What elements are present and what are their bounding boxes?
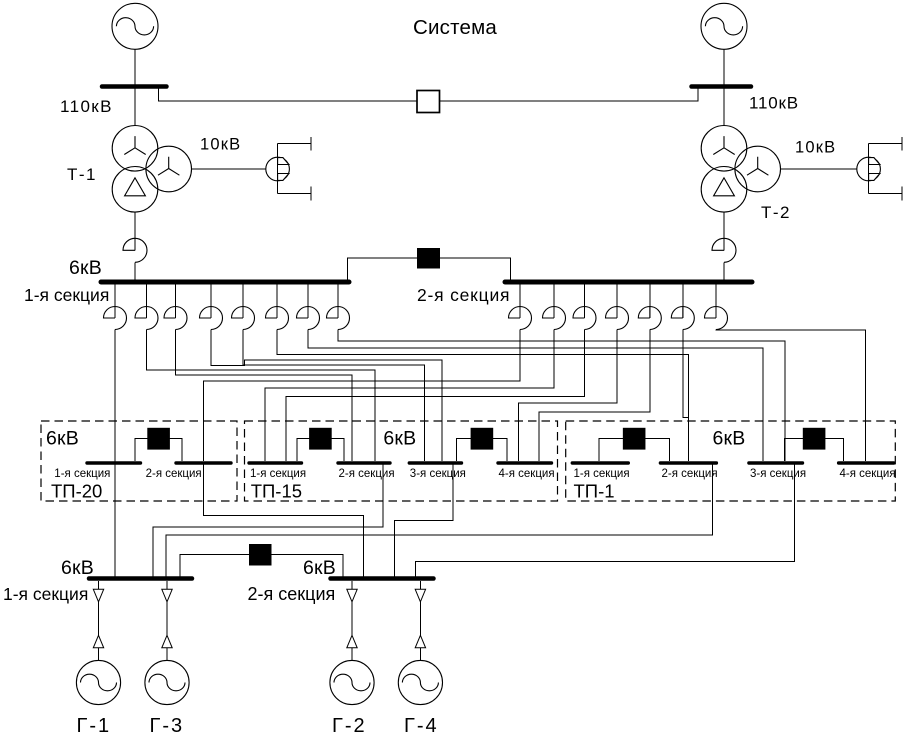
wire Г-4 middle lead — [419, 602, 421, 636]
wire feeder L7 drop — [307, 284, 309, 318]
substation box TP-1 — [566, 421, 896, 501]
switch closed tie TP-15 — [309, 428, 332, 450]
svg-text:Т-2: Т-2 — [761, 203, 791, 222]
substation box TP-15 — [245, 421, 558, 501]
busbar TP-20 1-я секция — [87, 461, 141, 464]
wire feeder L3 drop — [175, 284, 177, 318]
wire Г-1 lower lead — [98, 648, 100, 661]
wire TP-20 sec2 to lower right bus — [204, 465, 364, 579]
wire T-1 10kV lead — [192, 168, 266, 170]
svg-text:10кВ: 10кВ — [200, 136, 241, 154]
wire lower bus tie — [180, 555, 343, 577]
switch closed tie TP-15 — [471, 428, 494, 450]
wire Г-4 lower lead — [419, 648, 421, 661]
wire reactor-left top terminal — [278, 137, 311, 151]
cable termination Г-1 lower — [93, 635, 103, 648]
busbar 110kV right — [692, 84, 752, 89]
svg-text:Г-4: Г-4 — [404, 715, 439, 735]
svg-text:110кВ: 110кВ — [60, 97, 113, 116]
AC source system right — [701, 3, 747, 49]
cable termination Г-2 lower — [347, 635, 357, 648]
svg-text:10кВ: 10кВ — [795, 139, 836, 157]
wire tie TP-1 — [599, 439, 670, 462]
wire T-2 LV lead upper — [723, 212, 725, 250]
wire T-1 LV lead lower — [134, 262, 136, 280]
wire Г-2 upper lead — [351, 581, 353, 589]
wire reactor-right bottom terminal — [869, 187, 902, 201]
svg-text:1-я секция: 1-я секция — [54, 468, 110, 480]
cable termination Г-1 upper — [93, 589, 103, 602]
wire feeder L8 route — [338, 330, 785, 462]
wire feeder R1 route — [204, 330, 521, 462]
svg-text:1-я секция: 1-я секция — [250, 468, 306, 480]
generator Г-3 — [145, 660, 189, 704]
breaker feeder L4 — [200, 307, 223, 330]
busbar 6kV section 2 — [505, 280, 752, 285]
svg-text:ТП-1: ТП-1 — [574, 481, 615, 502]
wire feeder R2 route — [265, 330, 554, 462]
split reactor right — [857, 157, 881, 181]
transformer T-2 (three-winding) — [701, 126, 780, 213]
wire Г-2 middle lead — [351, 602, 353, 636]
wire 6kV bus tie — [348, 258, 511, 280]
generator Г-4 — [398, 660, 442, 704]
breaker feeder L5 — [232, 307, 255, 330]
svg-text:Г-3: Г-3 — [150, 715, 185, 735]
wire source-right to 110kV bus — [723, 49, 725, 84]
breaker feeder R4 — [606, 307, 629, 330]
wire feeder R4 route — [519, 330, 617, 462]
wire tie TP-20 — [135, 439, 182, 462]
wire feeder L2 drop — [146, 284, 148, 318]
busbar TP-1 2-я секция — [660, 461, 716, 464]
wire feeder L6 drop — [276, 284, 278, 318]
svg-text:3-я секция: 3-я секция — [750, 468, 806, 480]
busbar lower 6kV section 2 — [331, 576, 434, 581]
svg-text:Г-2: Г-2 — [332, 715, 367, 735]
wire reactor-right stem — [868, 144, 870, 194]
busbar TP-15 1-я секция — [249, 461, 302, 464]
busbar TP-20 2-я секция — [176, 461, 231, 464]
wire feeder R5 drop — [649, 284, 651, 318]
svg-text:6кВ: 6кВ — [46, 428, 79, 450]
busbar TP-15 2-я секция — [338, 461, 390, 464]
wire 110kV intertie — [159, 89, 699, 101]
busbar TP-1 4-я секция — [839, 461, 894, 464]
wire tie TP-15 — [297, 439, 344, 462]
wire feeder R3 drop — [584, 284, 586, 318]
cable termination Г-3 lower — [162, 635, 172, 648]
wire feeder R4 drop — [616, 284, 618, 318]
substation box TP-20 — [41, 421, 237, 501]
svg-text:110кВ: 110кВ — [749, 94, 799, 113]
switch closed 6kV bus tie — [417, 248, 440, 269]
cable termination Г-4 upper — [415, 589, 425, 602]
cable termination Г-3 upper — [162, 589, 172, 602]
wire T-2 LV lead lower — [723, 262, 725, 280]
wire feeder R5 route — [539, 330, 650, 462]
breaker feeder L6 — [266, 307, 289, 330]
breaker feeder R3 — [573, 307, 596, 330]
wire feeder L1 drop — [114, 284, 116, 318]
wire T-2 10kV lead — [781, 168, 857, 170]
wire feeder L6 route — [277, 330, 689, 462]
svg-text:4-я секция: 4-я секция — [840, 468, 896, 480]
busbar lower 6kV section 1 — [89, 576, 192, 581]
wire feeder L7 route — [308, 330, 763, 462]
busbar 6kV section 1 — [101, 280, 349, 285]
svg-text:6кВ: 6кВ — [61, 557, 94, 579]
switch closed lower bus tie — [249, 544, 272, 566]
breaker T-2 LV — [712, 238, 736, 262]
wire T-1 LV lead upper — [134, 212, 136, 250]
split reactor left — [266, 157, 290, 181]
wire feeder L5 drop — [242, 284, 244, 318]
svg-text:6кВ: 6кВ — [383, 428, 416, 450]
wire Г-3 lower lead — [166, 648, 168, 661]
svg-text:2-я секция: 2-я секция — [662, 468, 718, 480]
svg-text:2-я секция: 2-я секция — [146, 468, 202, 480]
wire Г-1 middle lead — [98, 602, 100, 636]
wire Г-1 upper lead — [98, 581, 100, 589]
wire feeder L4 route — [211, 330, 442, 462]
wire feeder R6 route — [683, 330, 689, 462]
switch open 110kV tie — [417, 91, 440, 113]
switch closed tie TP-20 — [147, 428, 170, 450]
wire feeder L3 route — [176, 330, 353, 462]
busbar 110kV left — [102, 84, 167, 89]
wire Г-3 upper lead — [166, 581, 168, 589]
breaker feeder R7 — [705, 307, 728, 330]
svg-text:ТП-15: ТП-15 — [251, 481, 302, 502]
switch closed tie TP-1 — [623, 428, 646, 450]
cable termination Г-2 upper — [347, 589, 357, 602]
breaker feeder R1 — [509, 307, 532, 330]
wire feeder L4 drop — [210, 284, 212, 318]
wire feeder R6 drop — [682, 284, 684, 318]
wire tie TP-15 — [457, 439, 507, 462]
wire feeder R7 drop — [715, 284, 717, 318]
breaker feeder L1 — [104, 307, 127, 330]
wire feeder L8 drop — [337, 284, 339, 318]
svg-text:6кВ: 6кВ — [303, 557, 336, 579]
wire feeder R1 drop — [519, 284, 521, 318]
wire 110kV bus to T-1 — [134, 89, 136, 126]
wire TP-1 sec3 to lower right bus — [416, 465, 795, 579]
wire reactor-left stem — [277, 144, 279, 194]
svg-text:1-я секция: 1-я секция — [574, 468, 630, 480]
generator Г-1 — [76, 660, 120, 704]
cable termination Г-4 lower — [415, 635, 425, 648]
breaker feeder R6 — [671, 307, 694, 330]
switch closed tie TP-1 — [803, 428, 826, 450]
svg-text:3-я секция: 3-я секция — [410, 468, 466, 480]
AC source system left — [112, 3, 158, 49]
breaker feeder R5 — [638, 307, 661, 330]
svg-text:Система: Система — [413, 16, 497, 39]
breaker feeder L2 — [135, 307, 158, 330]
svg-text:6кВ: 6кВ — [69, 257, 102, 279]
busbar TP-1 3-я секция — [749, 461, 803, 464]
svg-text:2-я секция: 2-я секция — [417, 285, 510, 305]
wire feeder L5 route — [243, 330, 425, 462]
wire feeder R7 route — [716, 330, 866, 462]
breaker T-1 LV — [123, 238, 147, 262]
busbar TP-15 4-я секция — [498, 461, 552, 464]
wire tie TP-1 — [785, 439, 844, 462]
busbar TP-15 3-я секция — [409, 461, 461, 464]
wire Г-4 upper lead — [419, 581, 421, 589]
wire TP-1 sec2 to lower left bus — [166, 465, 712, 579]
breaker feeder R2 — [543, 307, 566, 330]
svg-text:ТП-20: ТП-20 — [51, 481, 102, 502]
breaker feeder L3 — [164, 307, 187, 330]
wire 110kV bus to T-2 — [723, 89, 725, 126]
wire Г-2 lower lead — [351, 648, 353, 661]
svg-text:1-я секция: 1-я секция — [3, 584, 88, 604]
svg-text:4-я секция: 4-я секция — [499, 468, 555, 480]
busbar TP-1 1-я секция — [572, 461, 628, 464]
wire TP-15 sec2 to lower left bus — [153, 465, 383, 579]
wire Г-3 middle lead — [166, 602, 168, 636]
svg-text:Т-1: Т-1 — [67, 165, 97, 184]
breaker feeder L8 — [327, 307, 350, 330]
svg-text:Г-1: Г-1 — [77, 715, 112, 735]
wire tie line TP-15 sec3 to lower right bus — [395, 465, 453, 579]
svg-text:2-я секция: 2-я секция — [248, 584, 336, 604]
transformer T-1 (three-winding) — [112, 126, 191, 213]
wire reactor-right top terminal — [869, 137, 902, 151]
wire source-left to 110kV bus — [134, 49, 136, 84]
svg-text:2-я секция: 2-я секция — [339, 468, 395, 480]
svg-text:1-я секция: 1-я секция — [24, 285, 109, 305]
wire feeder R2 drop — [553, 284, 555, 318]
breaker feeder L7 — [297, 307, 320, 330]
wire feeder L1 to TP-20 sec1 and lower bus — [114, 330, 116, 579]
generator Г-2 — [330, 660, 374, 704]
svg-text:6кВ: 6кВ — [713, 428, 746, 450]
wire feeder R3 route — [286, 330, 585, 462]
wire feeder L2 route — [147, 330, 376, 462]
wire reactor-left bottom terminal — [278, 187, 311, 201]
